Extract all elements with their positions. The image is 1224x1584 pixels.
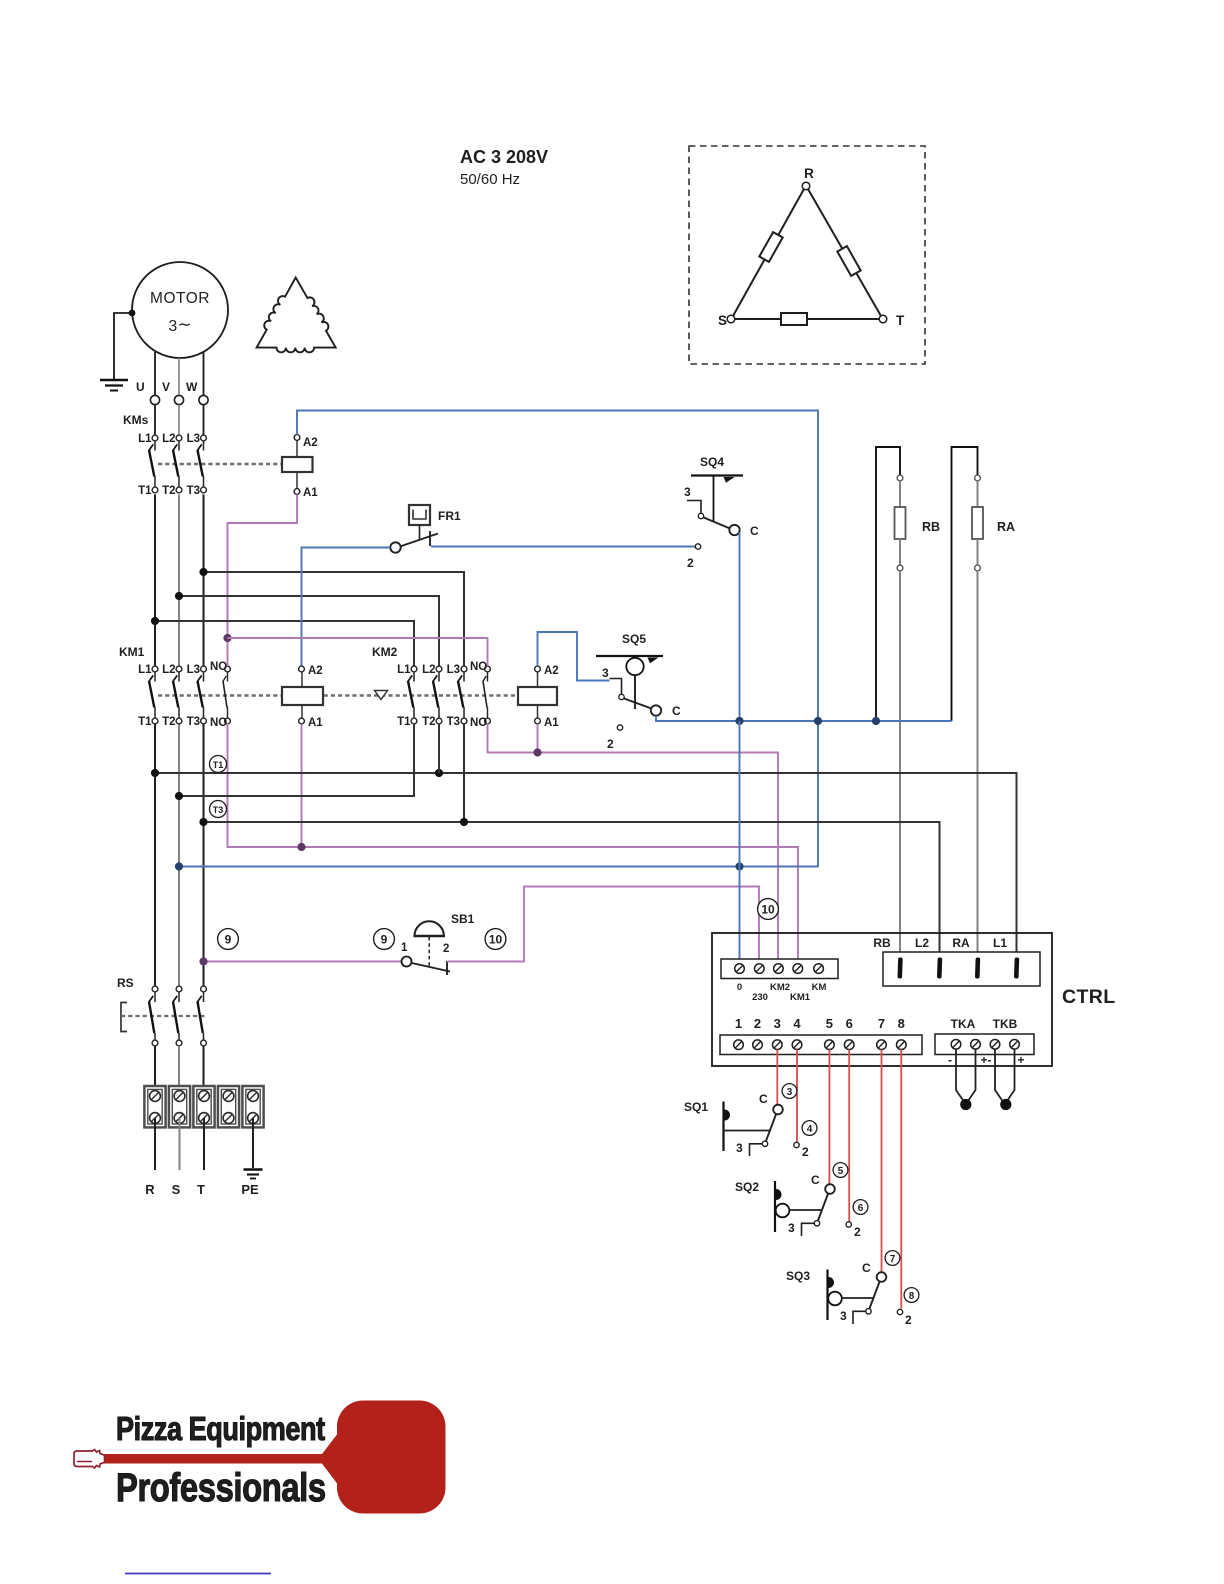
RS dashed linkage (121, 1015, 206, 1017)
svg-text:SQ1: SQ1 (684, 1100, 708, 1114)
svg-text:C: C (811, 1173, 820, 1187)
SQ2 pin2 terminal (846, 1222, 851, 1227)
wire blue 0 drop (739, 721, 741, 959)
CTRL power terminal strip (883, 952, 1040, 986)
screw 8 (897, 1040, 907, 1050)
wire purple phase T to SB1 (204, 961, 402, 963)
KM1 NO pole (223, 666, 231, 724)
svg-text:U: U (136, 380, 145, 394)
FR1 fixed contact tick (429, 531, 431, 546)
svg-text:Pizza Equipment: Pizza Equipment (116, 1412, 325, 1448)
svg-text:2: 2 (854, 1225, 861, 1239)
junction blue RB x 721 (872, 717, 880, 725)
CTRL box outline (712, 933, 1052, 1066)
FR1 stem (419, 525, 421, 540)
svg-text:NO: NO (470, 717, 487, 729)
wire blue FR1 left + drop to KM1 A2 (302, 548, 391, 667)
node R terminal (802, 182, 810, 190)
label T3 circled (210, 801, 227, 818)
svg-text:L3: L3 (447, 664, 460, 676)
SQ4 pin2 terminal (695, 544, 700, 549)
wire motor lead U (154, 352, 156, 395)
wire red 3 to SQ1 C (776, 1050, 778, 1105)
junction blue SQ4C x 721 (735, 717, 743, 725)
motor M1 circle (132, 262, 228, 358)
KM2 A1 terminal (535, 718, 541, 724)
wire RA top hook (952, 447, 978, 721)
wire phase T vertical (KM1 T3 to RS) (203, 723, 205, 986)
wire RS to block T (203, 1046, 205, 1096)
junction T1 phase R (151, 769, 159, 777)
wire RA to CTRL blade (977, 571, 979, 959)
wire KM2 feed L1 (155, 621, 414, 666)
wire red 8 to SQ3 pin2 (900, 1050, 902, 1309)
SQ3 pin2 terminal (897, 1309, 902, 1314)
RB top terminal (897, 475, 903, 481)
KM2 coil wire A2 (537, 671, 539, 687)
wire phase R vertical (KMs T1 to KM1 L1) (154, 494, 156, 666)
wire phase S vertical (KMs T2 to KM1 L2) (178, 494, 180, 666)
svg-text:8: 8 (909, 1291, 915, 1302)
SQ3 lever (869, 1281, 880, 1309)
svg-text:3∼: 3∼ (168, 315, 191, 335)
svg-text:SQ5: SQ5 (622, 632, 646, 646)
svg-text:C: C (759, 1092, 768, 1106)
KM1 coil (282, 687, 323, 705)
svg-text:SQ2: SQ2 (735, 1180, 759, 1194)
junction blue 0-drop crossing (735, 862, 743, 870)
label T1 circled (210, 756, 227, 773)
terminal block T (193, 1086, 214, 1127)
junction KM2 feed L2 (175, 592, 183, 600)
screw KM (814, 964, 824, 974)
label circled 8 (904, 1288, 919, 1303)
RA bottom terminal (975, 565, 981, 571)
SQ2 cam bar (774, 1181, 776, 1232)
junction T1 KM2 T2 (435, 769, 443, 777)
label circled 3 (782, 1084, 797, 1099)
svg-text:L1: L1 (138, 433, 152, 445)
label circled 9 left (218, 929, 239, 950)
ground symbol (PE) (244, 1170, 263, 1179)
RS pole 2 (173, 986, 182, 1046)
svg-text:10: 10 (761, 903, 775, 917)
label circled 9 right (374, 929, 395, 950)
svg-text:PE: PE (241, 1182, 259, 1197)
KM2 coil wire A1 (537, 705, 539, 719)
svg-text:+-: +- (980, 1053, 991, 1067)
SQ2 lever (818, 1193, 829, 1221)
SQ2 cam bump (776, 1189, 782, 1200)
plug TKA (960, 1099, 971, 1110)
SQ3 cam bump (829, 1277, 835, 1288)
KMs coil wire A1 (296, 472, 298, 489)
svg-text:3: 3 (840, 1309, 847, 1323)
svg-text:50/60 Hz: 50/60 Hz (460, 171, 520, 188)
wire block S tail (179, 1118, 181, 1170)
RB wire lower (899, 539, 901, 565)
logo peel shaft (100, 1454, 335, 1464)
SB1 stem dashed (428, 937, 430, 968)
junction blue KMsA2 x 721 (814, 717, 822, 725)
wire red 5 to SQ2 C (828, 1050, 830, 1185)
plug TKB (1000, 1099, 1011, 1110)
SQ1 pin3 contact (762, 1141, 767, 1146)
SQ1 C terminal (773, 1105, 783, 1115)
svg-text:RB: RB (873, 936, 891, 950)
FR1 contact lever (400, 534, 438, 547)
svg-text:TKB: TKB (993, 1017, 1018, 1031)
KM1 pole 3 (197, 666, 206, 724)
svg-text:2: 2 (905, 1313, 912, 1327)
SQ5 pin2 terminal (617, 725, 622, 730)
wire purple to KM2 NO (228, 638, 488, 666)
RA wire lower (977, 539, 979, 565)
SQ4 lever (703, 517, 730, 528)
svg-text:T1: T1 (138, 485, 152, 497)
screw 3 (773, 1040, 783, 1050)
svg-text:-: - (948, 1053, 952, 1067)
SB1 fixed tick (446, 961, 448, 975)
wire phase R vertical (KM1 T1 to RS) (154, 723, 156, 986)
svg-text:NO: NO (210, 661, 227, 673)
svg-text:NO: NO (210, 717, 227, 729)
KMs dashed linkage (158, 463, 282, 465)
blade L2 (937, 957, 942, 978)
KM1 A2 terminal (299, 666, 305, 672)
wire TKA+ (968, 1050, 976, 1102)
KMs pole 2 (173, 435, 182, 493)
svg-text:Professionals: Professionals (116, 1465, 326, 1510)
logo handle grip line (77, 1461, 92, 1463)
svg-text:L1: L1 (397, 664, 411, 676)
wire RB top hook (876, 447, 900, 721)
blade L1 (1014, 957, 1019, 978)
SQ3 roller (828, 1292, 842, 1306)
svg-text:T3: T3 (213, 805, 224, 815)
SQ4 pin3 bracket (687, 501, 701, 514)
svg-text:L2: L2 (162, 433, 175, 445)
SQ2 roller (776, 1204, 790, 1218)
wire block T tail (203, 1118, 205, 1170)
svg-text:KM1: KM1 (790, 992, 811, 1003)
wire V to KMs L2 (178, 405, 180, 435)
svg-text:T1: T1 (138, 716, 152, 728)
svg-text:230: 230 (752, 992, 768, 1003)
screw KM1 (793, 964, 803, 974)
svg-text:R: R (804, 166, 814, 181)
svg-text:AC 3 208V: AC 3 208V (460, 147, 548, 167)
svg-text:SQ4: SQ4 (700, 455, 724, 469)
wire purple KMs A1 drop (228, 494, 298, 638)
screw TKB+ (1010, 1040, 1020, 1050)
wire KM2 T3 drop (463, 723, 465, 822)
CTRL TK terminal strip (935, 1034, 1034, 1055)
junction T3 KM2 T3 (460, 818, 468, 826)
KM1 pole 2 (173, 666, 182, 724)
svg-text:3: 3 (787, 1087, 793, 1098)
screw TKA+ (971, 1040, 981, 1050)
screw 6 (844, 1040, 854, 1050)
svg-text:C: C (750, 524, 759, 538)
svg-text:L1: L1 (993, 936, 1007, 950)
SB1 lever (412, 963, 450, 972)
svg-text:5: 5 (826, 1016, 833, 1031)
SQ5 roller (626, 658, 643, 675)
wire R-S (733, 189, 804, 316)
KM2 coil (518, 687, 557, 705)
SQ4 stem (713, 475, 715, 522)
SQ5 head wedge (648, 658, 659, 664)
SQ5 stem (634, 675, 636, 709)
junction T3 phase T (199, 818, 207, 826)
ground symbol (motor) (100, 380, 128, 391)
SQ5 pin3 contact (619, 694, 624, 699)
svg-text:T1: T1 (213, 760, 224, 770)
svg-text:10: 10 (489, 933, 503, 947)
resistor R-T (837, 246, 860, 276)
wire motor lead V (178, 358, 180, 395)
screw TKB- (990, 1040, 1000, 1050)
KMs A2 terminal (294, 435, 300, 441)
svg-text:C: C (862, 1261, 871, 1275)
screw TKA- (951, 1040, 961, 1050)
SQ5 head bar (596, 655, 663, 657)
node S terminal (727, 315, 735, 323)
CTRL coil terminal strip (721, 959, 838, 979)
svg-text:L1: L1 (138, 664, 152, 676)
wire TKB+ (1007, 1050, 1015, 1102)
SQ3 arm (842, 1297, 873, 1299)
svg-text:L2: L2 (422, 664, 435, 676)
svg-text:T3: T3 (187, 485, 200, 497)
svg-text:4: 4 (793, 1016, 801, 1031)
svg-text:T1: T1 (397, 716, 411, 728)
dashed box (delta supply detail) (689, 146, 925, 364)
wire block PE tail (252, 1118, 254, 1168)
wire phase T vertical (KMs T3 to KM1 L3) (203, 494, 205, 666)
svg-text:A2: A2 (303, 437, 318, 449)
SQ5 lever (624, 698, 652, 708)
terminal block PE (242, 1086, 263, 1127)
SQ2 arm (789, 1209, 822, 1211)
wire blue KMs A2 riser (297, 411, 818, 868)
svg-text:3: 3 (684, 485, 691, 499)
wire T1 bus (155, 773, 1017, 959)
RS pole 3 (197, 986, 206, 1046)
SQ2 C terminal (825, 1184, 835, 1194)
wire block R tail (154, 1118, 156, 1170)
blade RA (975, 957, 980, 978)
svg-text:1: 1 (735, 1016, 742, 1031)
connector circle W (199, 395, 208, 404)
SQ1 pin3 bracket (750, 1144, 763, 1156)
label circled 5 (833, 1163, 848, 1178)
RA top terminal (975, 475, 981, 481)
wire blue SQ4 C drop (739, 532, 741, 721)
KM2 pole 1 (408, 666, 417, 724)
svg-text:6: 6 (858, 1203, 864, 1214)
RA wire upper (977, 481, 979, 507)
label circled 10 left (485, 929, 506, 950)
screw 7 (877, 1040, 887, 1050)
SQ4 pin3 contact (698, 513, 703, 518)
svg-text:NO: NO (470, 661, 487, 673)
SQ1 cam bump (725, 1110, 731, 1121)
svg-text:L3: L3 (187, 664, 200, 676)
svg-text:T3: T3 (187, 716, 200, 728)
wire purple KM2 A1 drop (537, 724, 539, 753)
KM2 pole 3 (458, 666, 467, 724)
svg-text:9: 9 (381, 933, 388, 947)
wire U to KMs L1 (154, 405, 156, 435)
wire red 6 to SQ2 pin2 (848, 1050, 850, 1223)
svg-text:RB: RB (922, 520, 940, 534)
SQ3 pin3 contact (866, 1309, 871, 1314)
svg-text:L2: L2 (162, 664, 175, 676)
svg-text:SB1: SB1 (451, 912, 475, 926)
winding triangle (delta) (257, 278, 336, 353)
wire RS to block S (178, 1046, 180, 1096)
svg-text:S: S (718, 313, 727, 328)
KM1 dashed linkage (158, 694, 518, 696)
svg-text:KM2: KM2 (770, 982, 790, 993)
junction KM2 feed L3 (199, 568, 207, 576)
SQ4 head wedge (724, 477, 735, 483)
svg-text:1: 1 (401, 942, 408, 954)
svg-text:2: 2 (443, 943, 449, 955)
terminal block spare (218, 1086, 239, 1127)
svg-text:2: 2 (802, 1145, 809, 1159)
svg-text:+: + (1017, 1053, 1024, 1067)
resistor S-T (781, 313, 807, 325)
RB bottom terminal (897, 565, 903, 571)
svg-text:C: C (672, 704, 681, 718)
SQ2 pin3 contact (814, 1221, 819, 1226)
svg-text:KM: KM (812, 982, 827, 993)
svg-text:0: 0 (737, 982, 742, 993)
KM2 NO pole (483, 666, 491, 724)
KM2 A2 terminal (535, 666, 541, 672)
SB1 mushroom head (415, 921, 444, 936)
svg-text:KM1: KM1 (119, 645, 145, 659)
KMs coil (282, 457, 313, 472)
wire TKB- (995, 1050, 1003, 1102)
wire KM2 T1 return (179, 723, 414, 796)
svg-text:7: 7 (878, 1016, 885, 1031)
wire RB to CTRL blade (899, 571, 901, 959)
SQ1 arm (724, 1130, 771, 1132)
SQ3 pin3 bracket (853, 1311, 866, 1324)
screw 2 (753, 1040, 763, 1050)
wire KM2 T2 drop (438, 723, 440, 773)
label circled 7 (885, 1251, 900, 1266)
svg-text:KMs: KMs (123, 413, 149, 427)
KM1 coil wire A1 (301, 705, 303, 719)
label circled 6 (853, 1200, 868, 1215)
wire purple KM1 A1 drop (301, 724, 303, 847)
wire KM2 feed L3 (204, 572, 465, 666)
SQ5 C terminal (651, 705, 661, 715)
SQ3 cam bar (826, 1270, 828, 1321)
KMs coil wire A2 (296, 440, 298, 457)
wire S-T (735, 318, 879, 320)
logo peel blade (337, 1401, 446, 1514)
KMs A1 terminal (294, 489, 300, 495)
junction purple phase T (199, 957, 207, 965)
svg-text:TKA: TKA (951, 1017, 976, 1031)
KM1 A1 terminal (299, 718, 305, 724)
KM2 pole 2 (433, 666, 442, 724)
svg-text:9: 9 (225, 933, 232, 947)
wire red 4 to SQ1 pin2 (796, 1050, 798, 1143)
svg-text:A2: A2 (308, 665, 323, 677)
svg-text:2: 2 (754, 1016, 761, 1031)
svg-text:T2: T2 (162, 716, 175, 728)
svg-text:A2: A2 (544, 665, 559, 677)
RB wire upper (899, 481, 901, 507)
wire purple KM2 NO bottom to KM2 circuit (488, 723, 779, 959)
terminal block R (144, 1086, 165, 1127)
svg-text:A1: A1 (308, 717, 323, 729)
KMs pole 3 (197, 435, 206, 493)
svg-text:2: 2 (687, 556, 694, 570)
KM1/KM2 linkage triangle (375, 691, 388, 700)
svg-text:L3: L3 (187, 433, 200, 445)
terminal block S (169, 1086, 190, 1127)
logo peel neck (322, 1424, 345, 1494)
SQ4 C terminal (729, 525, 739, 535)
wire R-T (808, 189, 881, 316)
svg-text:W: W (186, 380, 198, 394)
svg-text:S: S (172, 1182, 181, 1197)
SQ3 C terminal (877, 1272, 887, 1282)
wire red 7 to SQ3 C (881, 1050, 883, 1273)
KM1 pole 1 (149, 666, 158, 724)
RS bracket (121, 1003, 127, 1032)
wire blue FR1 right to SQ4 pin2 (431, 546, 695, 548)
wire T3 bus (204, 822, 940, 959)
svg-text:CTRL: CTRL (1062, 986, 1116, 1008)
wire blue SQ5 C bus (656, 716, 952, 721)
wire motor lead W (203, 352, 205, 395)
CTRL SQ terminal strip (720, 1035, 922, 1055)
svg-text:RS: RS (117, 976, 134, 990)
svg-text:3: 3 (736, 1141, 743, 1155)
SQ1 lever (766, 1114, 777, 1142)
screw KM2 (774, 964, 784, 974)
resistor RB (895, 507, 906, 539)
motor ground wire (114, 313, 132, 379)
SQ5 pin3 bracket (610, 679, 622, 695)
wire W to KMs L3 (203, 405, 205, 435)
svg-text:T: T (896, 313, 905, 328)
svg-text:A1: A1 (544, 717, 559, 729)
label circled 10 right (758, 899, 779, 920)
RS pole 1 (149, 986, 158, 1046)
svg-text:RA: RA (952, 936, 970, 950)
svg-text:T2: T2 (162, 485, 175, 497)
blade RB (897, 957, 902, 978)
svg-text:3: 3 (602, 666, 609, 680)
svg-text:T: T (197, 1182, 205, 1197)
SB1 head base (414, 935, 446, 938)
svg-text:A1: A1 (303, 487, 318, 499)
svg-text:R: R (145, 1182, 155, 1197)
KMs pole 1 (149, 435, 158, 493)
svg-text:FR1: FR1 (438, 509, 461, 523)
SQ4 head bar (691, 474, 743, 476)
